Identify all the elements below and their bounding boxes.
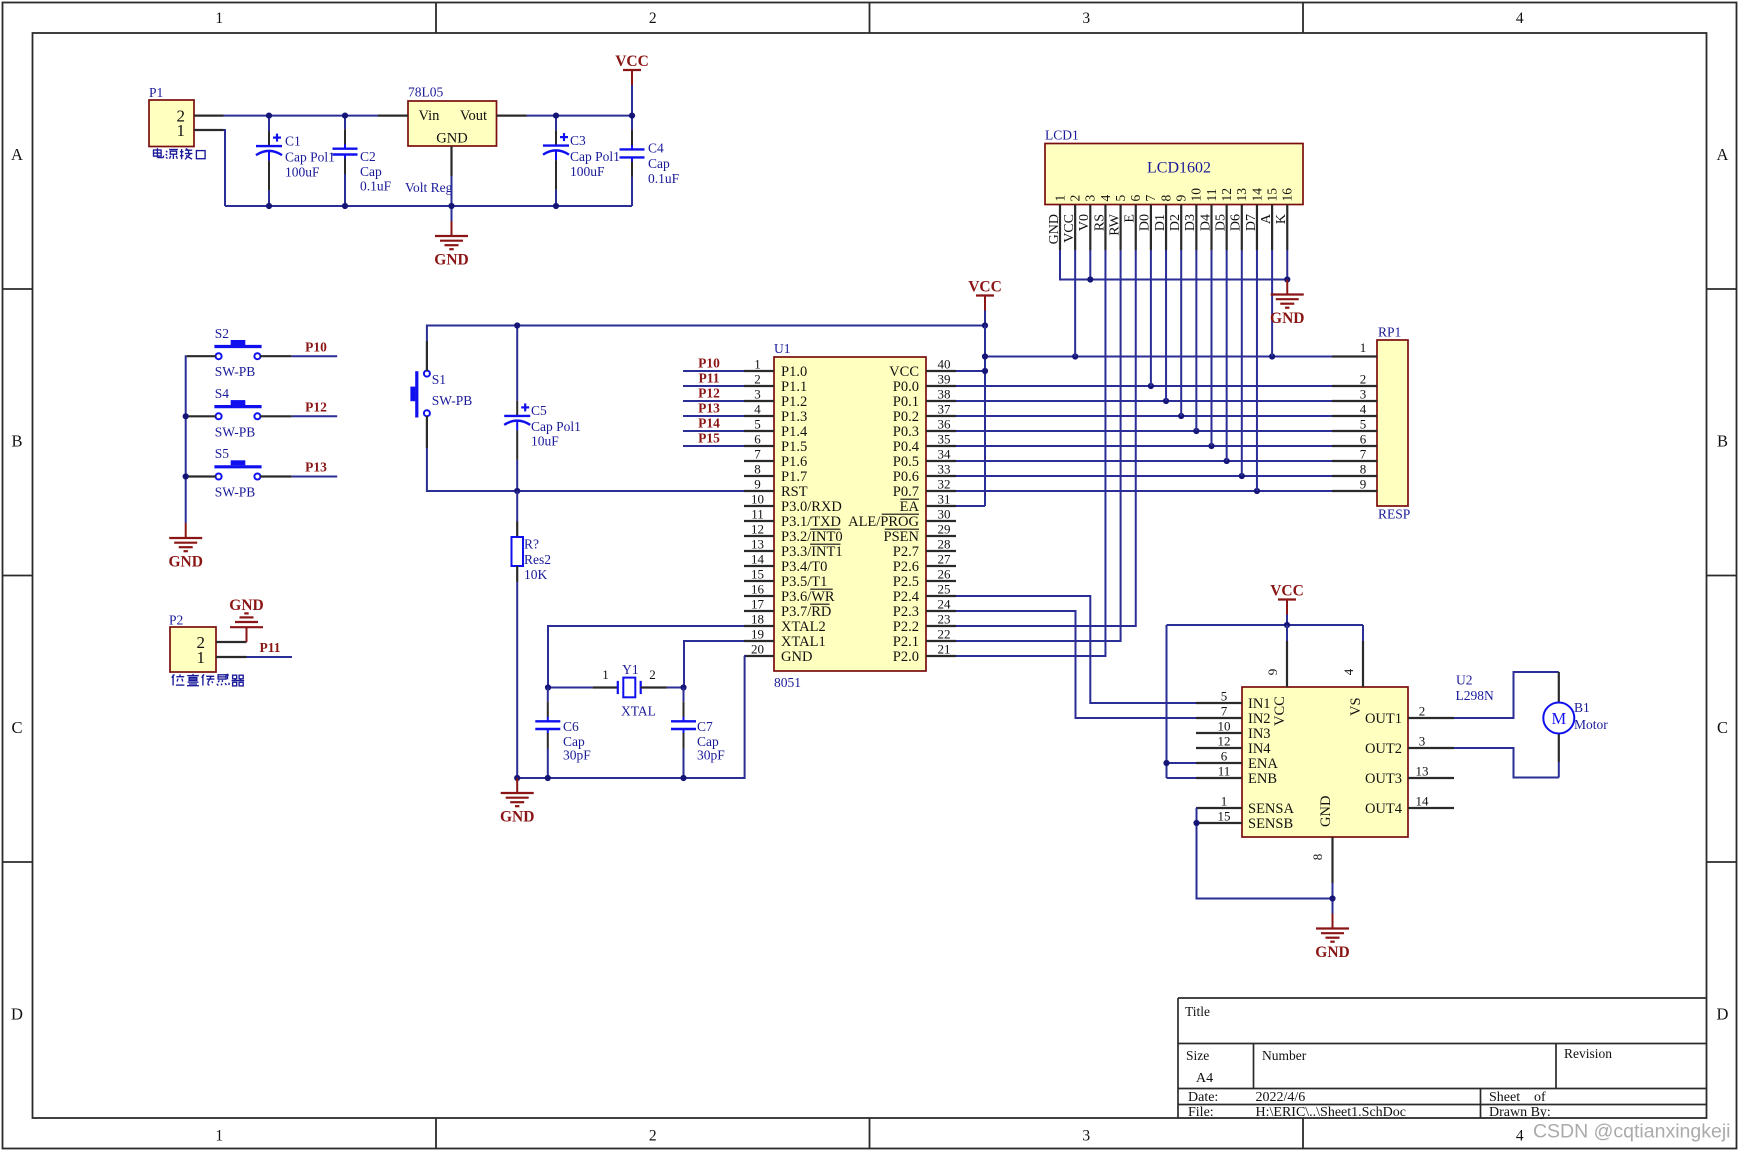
- pin U2.6 ENA: [1196, 762, 1242, 764]
- svg-text:9: 9: [1265, 669, 1280, 676]
- svg-text:31: 31: [938, 492, 951, 507]
- svg-text:14: 14: [1249, 188, 1264, 202]
- pin LCD1.13 D6: [1241, 205, 1243, 251]
- wire P1.2 to C1/C2/78L05 Vin: [224, 115, 379, 117]
- wire LCD D1 down: [1165, 250, 1167, 401]
- pin U2.4 VS (top): [1362, 641, 1364, 687]
- pin U1.37 P0.2: [926, 415, 956, 417]
- junction D3: [1193, 428, 1199, 434]
- wire LCD D3 down: [1195, 250, 1197, 431]
- svg-text:P10: P10: [305, 339, 327, 354]
- svg-text:Number: Number: [1262, 1048, 1307, 1063]
- svg-text:C4: C4: [648, 141, 664, 156]
- wire P2.3 (pin24) to L298N IN2: [956, 611, 1196, 718]
- pin U1.16 P3.6/WR: [744, 595, 774, 597]
- wire U2 GND pin to ground: [1332, 883, 1334, 914]
- svg-text:P11: P11: [259, 640, 280, 655]
- wire LCD V0 pin3 down: [1089, 250, 1091, 280]
- pin RP1.5: [1332, 430, 1377, 432]
- wire switch common vertical: [185, 356, 188, 523]
- pin 78L05 Vout: [497, 114, 527, 116]
- capacitor C2: [344, 116, 346, 130]
- svg-text:15: 15: [1218, 809, 1231, 824]
- junction ENA: [1163, 760, 1169, 766]
- pin U1.24 P2.3: [926, 610, 956, 612]
- pin 78L05 GND: [450, 146, 452, 176]
- svg-text:4: 4: [1341, 668, 1356, 675]
- svg-text:Y1: Y1: [622, 662, 639, 677]
- svg-text:LCD1: LCD1: [1045, 128, 1079, 143]
- pin U1.17 P3.7/RD: [744, 610, 774, 612]
- pin S5.1: [187, 475, 216, 477]
- svg-text:S1: S1: [432, 372, 446, 387]
- pin U1.14 P3.4/T0: [744, 565, 774, 567]
- wire P2.1 to net label: [247, 656, 293, 658]
- svg-text:P2.6: P2.6: [893, 559, 919, 575]
- svg-text:VCC: VCC: [889, 364, 919, 380]
- svg-text:38: 38: [938, 387, 951, 402]
- capacitor C1: [268, 116, 270, 132]
- svg-text:14: 14: [751, 552, 765, 567]
- svg-text:30: 30: [938, 507, 951, 522]
- label 电源接口: [154, 148, 206, 159]
- svg-text:9: 9: [754, 477, 761, 492]
- junction VCC rail: [1284, 622, 1290, 628]
- wire ENA/ENB vertical: [1166, 625, 1168, 778]
- wire P2.1 (pin22) to LCD RW: [956, 250, 1121, 641]
- svg-text:36: 36: [938, 417, 952, 432]
- junction C5 bottom: [514, 488, 520, 494]
- wire LCD D2 down: [1180, 250, 1182, 416]
- switch S5 SW-PB: [214, 465, 261, 468]
- wire P0.1: [956, 400, 1332, 402]
- svg-text:22: 22: [938, 627, 951, 642]
- wire ground rail: [225, 205, 632, 207]
- svg-text:P2.7: P2.7: [893, 544, 919, 560]
- pin LCD1.5 RW: [1119, 205, 1121, 251]
- svg-text:10uF: 10uF: [531, 434, 559, 449]
- svg-text:A: A: [11, 145, 23, 164]
- junction D2: [1178, 413, 1184, 419]
- svg-text:IN3: IN3: [1248, 726, 1271, 742]
- svg-text:P1.4: P1.4: [781, 424, 808, 440]
- pin U1.30 ALE/PROG: [926, 520, 956, 522]
- resistor pack RP1 RESP: [1377, 340, 1408, 506]
- wire P2.0 (pin21) to LCD RS: [956, 250, 1105, 656]
- pin LCD1.15 A: [1271, 205, 1273, 251]
- svg-text:GND: GND: [500, 809, 534, 826]
- svg-text:A4: A4: [1196, 1071, 1213, 1086]
- junction V0: [1087, 276, 1093, 282]
- svg-text:7: 7: [1143, 195, 1158, 202]
- svg-text:P2.2: P2.2: [893, 619, 919, 635]
- svg-text:C3: C3: [570, 133, 586, 148]
- junction D7: [1254, 488, 1260, 494]
- wire ENA: [1167, 762, 1197, 764]
- svg-text:B: B: [1717, 431, 1728, 450]
- svg-text:LCD1602: LCD1602: [1147, 160, 1211, 177]
- svg-text:D0: D0: [1138, 214, 1153, 231]
- svg-text:2: 2: [1067, 195, 1082, 202]
- svg-text:39: 39: [938, 372, 951, 387]
- svg-text:5: 5: [1360, 417, 1367, 432]
- pin U1.32 P0.7: [926, 490, 956, 492]
- svg-text:VS: VS: [1348, 697, 1364, 716]
- pin LCD1.14 D7: [1256, 205, 1258, 251]
- svg-text:A: A: [1717, 145, 1729, 164]
- svg-text:RS: RS: [1092, 214, 1107, 231]
- svg-text:27: 27: [938, 552, 952, 567]
- pin LCD1.16 K: [1286, 205, 1288, 251]
- svg-text:2022/4/6: 2022/4/6: [1256, 1090, 1306, 1105]
- pin P2.2: [216, 641, 247, 643]
- wire VCC rail over U2: [1167, 624, 1364, 626]
- svg-text:OUT1: OUT1: [1365, 711, 1402, 727]
- svg-text:35: 35: [938, 432, 951, 447]
- wire R? bottom to crystal ground rail: [516, 582, 518, 778]
- svg-text:1: 1: [1221, 794, 1228, 809]
- pin U1.38 P0.1: [926, 400, 956, 402]
- wire VCC distribution to LCD and RP1 (row 357): [985, 356, 1332, 358]
- svg-text:C6: C6: [563, 719, 579, 734]
- voltage regulator 78L05: [408, 101, 497, 146]
- junction Y1 left: [545, 684, 551, 690]
- pin U1.13 P3.3/INT1: [744, 550, 774, 552]
- pin U2.9 VCC (top): [1286, 641, 1288, 687]
- wire to VCC pin: [1286, 625, 1288, 641]
- svg-text:1: 1: [1052, 195, 1067, 202]
- svg-text:10: 10: [1189, 188, 1204, 202]
- pin U1.29 PSEN: [926, 535, 956, 537]
- svg-text:24: 24: [938, 597, 952, 612]
- pin S5.2: [260, 475, 292, 477]
- svg-text:4: 4: [1360, 402, 1367, 417]
- pin RP1.3: [1332, 400, 1377, 402]
- svg-text:12: 12: [1218, 734, 1231, 749]
- svg-text:9: 9: [1174, 195, 1189, 202]
- pin U2.7 IN2: [1196, 717, 1242, 719]
- svg-text:19: 19: [751, 627, 764, 642]
- svg-text:10K: 10K: [524, 567, 548, 582]
- junction pin40: [982, 368, 988, 374]
- svg-text:1: 1: [197, 648, 206, 667]
- pin U1.19 XTAL1: [744, 640, 774, 642]
- svg-text:C2: C2: [360, 149, 376, 164]
- pin U1.23 P2.2: [926, 625, 956, 627]
- svg-text:11: 11: [1218, 764, 1231, 779]
- svg-text:29: 29: [938, 522, 951, 537]
- capacitor C7: [683, 688, 685, 702]
- svg-text:P13: P13: [698, 400, 720, 415]
- svg-text:3: 3: [754, 387, 761, 402]
- svg-text:P11: P11: [698, 370, 719, 385]
- svg-text:P2.3: P2.3: [893, 604, 919, 620]
- pin U2.3 OUT2: [1408, 747, 1454, 749]
- svg-text:0.1uF: 0.1uF: [648, 171, 680, 186]
- svg-text:Cap Pol1: Cap Pol1: [570, 149, 620, 164]
- svg-text:Cap Pol1: Cap Pol1: [285, 150, 335, 165]
- pin RP1.9: [1332, 490, 1377, 492]
- svg-text:21: 21: [938, 642, 951, 657]
- junction U2 ground: [1329, 895, 1335, 901]
- svg-text:P1.1: P1.1: [781, 379, 807, 395]
- svg-text:IN4: IN4: [1248, 741, 1271, 757]
- svg-text:7: 7: [754, 447, 761, 462]
- svg-text:Drawn By:: Drawn By:: [1489, 1105, 1551, 1120]
- wire P1.1 down to ground rail: [224, 130, 226, 206]
- svg-text:GND: GND: [1315, 944, 1349, 961]
- svg-text:D: D: [11, 1004, 23, 1023]
- svg-text:P2: P2: [169, 613, 183, 628]
- pin LCD1.11 D4: [1210, 205, 1212, 251]
- pin LCD1.3 V0: [1089, 205, 1091, 251]
- svg-text:32: 32: [938, 477, 951, 492]
- pin U2.1 SENSA: [1196, 807, 1242, 809]
- svg-text:E: E: [1123, 214, 1138, 223]
- svg-text:K: K: [1274, 214, 1289, 224]
- svg-text:SW-PB: SW-PB: [215, 485, 256, 500]
- svg-text:P0.7: P0.7: [893, 484, 919, 500]
- pin P1.1: [194, 129, 224, 131]
- svg-text:6: 6: [1360, 432, 1367, 447]
- pin U1.4 P1.3: [744, 415, 774, 417]
- svg-text:8: 8: [1360, 462, 1367, 477]
- svg-text:OUT4: OUT4: [1365, 801, 1403, 817]
- pin U1.40 VCC: [926, 370, 956, 372]
- junction VCC/S1 rail: [982, 322, 988, 328]
- svg-text:100uF: 100uF: [285, 165, 320, 180]
- wire LCD K pin16 down: [1286, 250, 1288, 280]
- svg-text:ALE/PROG: ALE/PROG: [848, 514, 919, 530]
- svg-text:B: B: [11, 431, 22, 450]
- svg-text:26: 26: [938, 567, 952, 582]
- svg-text:P3.1/TXD: P3.1/TXD: [781, 514, 841, 530]
- svg-text:P3.2/INT0: P3.2/INT0: [781, 529, 843, 545]
- svg-text:RP1: RP1: [1378, 325, 1401, 340]
- pin S1.2: [426, 416, 428, 448]
- junction dots power section: [266, 113, 272, 119]
- svg-text:33: 33: [938, 462, 951, 477]
- pin LCD1.6 E: [1135, 205, 1137, 251]
- pin U2.10 IN3: [1196, 732, 1242, 734]
- junction SENSB: [1193, 820, 1199, 826]
- svg-text:SW-PB: SW-PB: [432, 393, 473, 408]
- svg-text:GND: GND: [229, 597, 263, 614]
- pin LCD1.9 D2: [1180, 205, 1182, 251]
- svg-text:8051: 8051: [774, 675, 801, 690]
- svg-text:S4: S4: [215, 386, 230, 401]
- junction D6: [1239, 473, 1245, 479]
- pin U1.22 P2.1: [926, 640, 956, 642]
- wire LCD D4 down: [1211, 250, 1213, 446]
- wire S1 bottom to RST rail: [427, 448, 744, 491]
- svg-text:P12: P12: [698, 385, 720, 400]
- capacitor C4: [631, 116, 633, 130]
- wire P0.2: [956, 415, 1332, 417]
- pin U1.35 P0.4: [926, 445, 956, 447]
- svg-text:3: 3: [1082, 10, 1090, 27]
- pin RP1.2: [1332, 385, 1377, 387]
- wire P0.6: [956, 475, 1332, 477]
- wire pin40 VCC: [956, 370, 985, 372]
- svg-text:Title: Title: [1185, 1004, 1210, 1019]
- ground GND at regulator: [451, 221, 453, 236]
- svg-text:100uF: 100uF: [570, 164, 605, 179]
- svg-text:L298N: L298N: [1456, 688, 1494, 703]
- wire EA (pin31) to VCC vertical: [956, 505, 985, 507]
- pin P2.1: [216, 656, 247, 658]
- svg-text:XTAL: XTAL: [621, 704, 656, 719]
- capacitor C6: [547, 688, 549, 702]
- switch S4 SW-PB: [214, 405, 261, 408]
- pin U1.39 P0.0: [926, 385, 956, 387]
- svg-text:ENA: ENA: [1248, 756, 1278, 772]
- svg-text:U1: U1: [774, 341, 791, 356]
- pin S4.1: [187, 415, 216, 417]
- svg-text:P0.3: P0.3: [893, 424, 919, 440]
- svg-text:of: of: [1534, 1090, 1546, 1105]
- pin LCD1.7 D0: [1150, 205, 1152, 251]
- svg-text:2: 2: [649, 1128, 657, 1145]
- svg-text:VCC: VCC: [1062, 214, 1077, 243]
- svg-text:IN2: IN2: [1248, 711, 1271, 727]
- svg-text:11: 11: [751, 507, 764, 522]
- svg-text:1: 1: [754, 357, 761, 372]
- svg-text:2: 2: [649, 667, 656, 682]
- wire P2.2 (pin23) to LCD E: [956, 250, 1136, 626]
- wire OUT2 to motor: [1454, 748, 1559, 778]
- svg-text:78L05: 78L05: [408, 85, 443, 100]
- svg-text:P3.0/RXD: P3.0/RXD: [781, 499, 842, 515]
- pin U1.36 P0.3: [926, 430, 956, 432]
- svg-text:ENB: ENB: [1248, 771, 1277, 787]
- wire S4 to net label: [292, 415, 338, 417]
- svg-text:GND: GND: [436, 131, 467, 147]
- svg-text:B1: B1: [1574, 700, 1590, 715]
- svg-text:V0: V0: [1077, 214, 1092, 231]
- wire XTAL2 (pin18): [548, 626, 744, 688]
- wire net P12: [683, 400, 744, 402]
- connector P2: [170, 627, 216, 672]
- svg-text:P0.2: P0.2: [893, 409, 919, 425]
- svg-text:RW: RW: [1107, 213, 1122, 236]
- svg-text:EA: EA: [900, 499, 920, 515]
- pin U2.15 SENSB: [1196, 822, 1242, 824]
- svg-text:6: 6: [1221, 749, 1228, 764]
- svg-text:S5: S5: [215, 446, 230, 461]
- svg-text:2: 2: [1419, 704, 1426, 719]
- svg-text:P3.4/T0: P3.4/T0: [781, 559, 827, 575]
- svg-text:C: C: [11, 718, 22, 737]
- crystal Y1 XTAL: [548, 687, 593, 689]
- svg-text:SENSB: SENSB: [1248, 816, 1293, 832]
- svg-text:P0.4: P0.4: [893, 439, 920, 455]
- svg-text:IN1: IN1: [1248, 696, 1271, 712]
- pin U1.7 P1.6: [744, 460, 774, 462]
- svg-text:GND: GND: [168, 554, 202, 571]
- ground GND at U2: [1332, 914, 1334, 929]
- svg-text:Size: Size: [1186, 1048, 1209, 1063]
- svg-text:U2: U2: [1456, 673, 1473, 688]
- svg-text:P12: P12: [305, 400, 327, 415]
- svg-text:D4: D4: [1198, 214, 1213, 231]
- pin LCD1.4 RS: [1104, 205, 1106, 251]
- wire net P13: [683, 415, 744, 417]
- svg-text:2: 2: [1360, 372, 1367, 387]
- wire P0.5: [956, 460, 1332, 462]
- wire net P10: [683, 370, 744, 372]
- svg-text:Date:: Date:: [1188, 1090, 1218, 1105]
- wire SENSB: [1195, 822, 1198, 824]
- pin LCD1.1 GND: [1059, 205, 1061, 251]
- svg-text:8: 8: [754, 462, 761, 477]
- pin LCD1.12 D5: [1226, 205, 1228, 251]
- svg-text:P1.6: P1.6: [781, 454, 807, 470]
- wire SENSA/SENSB to ground: [1196, 808, 1333, 899]
- svg-text:OUT2: OUT2: [1365, 741, 1402, 757]
- svg-text:13: 13: [1416, 764, 1429, 779]
- svg-text:Cap Pol1: Cap Pol1: [531, 419, 581, 434]
- svg-text:7: 7: [1360, 447, 1367, 462]
- svg-text:D3: D3: [1183, 214, 1198, 231]
- svg-text:R?: R?: [524, 537, 539, 552]
- svg-text:8: 8: [1158, 195, 1173, 202]
- pin U1.27 P2.6: [926, 565, 956, 567]
- svg-text:2: 2: [754, 372, 761, 387]
- pin U1.11 P3.1/TXD: [744, 520, 774, 522]
- ground GND at crystal: [516, 778, 518, 793]
- junction at S4: [183, 413, 189, 419]
- pin S2.1: [187, 355, 216, 357]
- pin RP1.6: [1332, 445, 1377, 447]
- switch S1 SW-PB (vertical): [415, 371, 418, 417]
- svg-text:GND: GND: [1270, 310, 1304, 327]
- svg-text:1: 1: [602, 667, 609, 682]
- connector P1: [149, 100, 194, 147]
- wire net P11: [683, 385, 744, 387]
- svg-text:28: 28: [938, 537, 951, 552]
- wire GND (pin20) down and left: [517, 656, 744, 778]
- pin U1.15 P3.5/T1: [744, 580, 774, 582]
- svg-text:P1: P1: [149, 85, 163, 100]
- microcontroller U1 8051: [774, 357, 926, 671]
- svg-text:P1.2: P1.2: [781, 394, 807, 410]
- wire LCD VCC pin2 down: [1074, 250, 1076, 357]
- svg-text:Res2: Res2: [524, 552, 551, 567]
- svg-text:Vout: Vout: [460, 108, 487, 124]
- svg-text:P0.6: P0.6: [893, 469, 919, 485]
- pin U1.25 P2.4: [926, 595, 956, 597]
- svg-text:30pF: 30pF: [563, 748, 591, 763]
- svg-text:CSDN @cqtianxingkeji: CSDN @cqtianxingkeji: [1533, 1121, 1731, 1143]
- motor B1: [1558, 672, 1560, 703]
- svg-text:5: 5: [754, 417, 761, 432]
- pin U1.20 GND: [744, 655, 774, 657]
- svg-text:8: 8: [1310, 854, 1325, 861]
- svg-text:20: 20: [751, 642, 764, 657]
- pin U2.8 GND (bottom): [1331, 837, 1333, 883]
- svg-text:37: 37: [938, 402, 952, 417]
- svg-text:Revision: Revision: [1564, 1046, 1612, 1061]
- wire to VS pin: [1362, 625, 1364, 641]
- pin RP1.7: [1332, 460, 1377, 462]
- svg-text:Sheet: Sheet: [1489, 1090, 1520, 1105]
- resistor R? Res2 10K: [516, 491, 518, 522]
- pin U2.11 ENB: [1196, 777, 1242, 779]
- pin U1.26 P2.5: [926, 580, 956, 582]
- svg-text:1: 1: [215, 1128, 223, 1145]
- svg-text:RST: RST: [781, 484, 808, 500]
